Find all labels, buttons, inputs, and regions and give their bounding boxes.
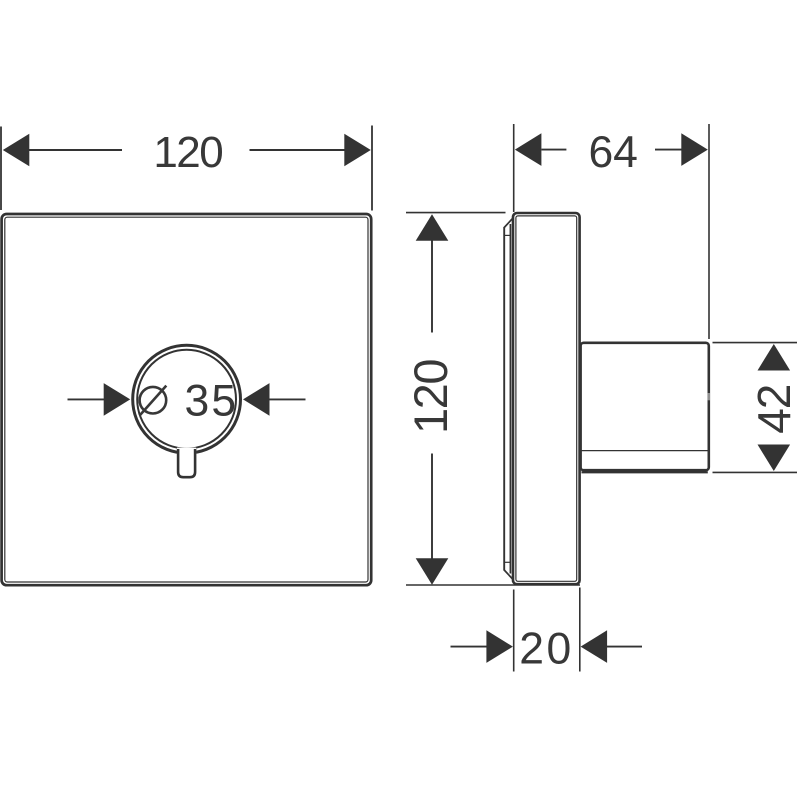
front view: escutcheon square plate outer outline [2, 214, 372, 585]
dim 64: left line segment [542, 149, 567, 151]
dim 64: right arrow [681, 133, 708, 166]
side view: plate body inner edge line [516, 216, 577, 581]
dim 42: bottom arrow [758, 445, 791, 472]
dim 42: top arrow [758, 344, 791, 371]
side view: wall flange inner vertical line [509, 224, 511, 574]
dim 20: left line segment [451, 646, 488, 648]
dim 120 top: right extension line [371, 126, 373, 211]
dim Ø35: right arrow [243, 383, 270, 416]
dim 64: right line segment [655, 149, 682, 151]
side view: flange bottom bevel [504, 570, 513, 580]
svg-text:42: 42 [748, 385, 800, 434]
dim 120 side: top extension line [406, 212, 506, 214]
dim 120 side: bottom extension line [406, 584, 580, 586]
side view: knob right edge light tick [707, 393, 710, 400]
dim Ø35: diameter symbol circle [140, 387, 167, 414]
dim 64: left extension line [513, 124, 515, 212]
dim Ø35: left leader line [68, 398, 106, 400]
dim 42: bottom extension line [713, 471, 798, 473]
svg-text:64: 64 [588, 128, 638, 177]
dim 20: left extension line [513, 590, 515, 672]
dim 20: right arrow [581, 630, 608, 663]
front view: escutcheon square plate inner edge line [5, 217, 368, 582]
front view: handle bottom tab notch fill [177, 448, 196, 478]
dim Ø35: right leader line [268, 398, 306, 400]
side view: plate body outer outline [513, 213, 580, 584]
side view: knob inner bottom line [582, 450, 708, 452]
dim 64: left arrow [515, 133, 542, 166]
side view: flange top tick [504, 234, 511, 236]
side view: flange bottom tick [504, 561, 511, 563]
dim 120 top: left line segment [28, 149, 122, 151]
dim 20: right line segment [607, 646, 642, 648]
dim 64: right extension line [708, 124, 710, 339]
dim Ø35: left arrow [104, 383, 131, 416]
dim 120 side: bottom arrow [416, 558, 449, 585]
dim 20: right extension line [579, 588, 581, 672]
front view: handle outer circle [133, 345, 241, 453]
side view: flange top bevel [504, 218, 513, 228]
svg-text:35: 35 [184, 376, 238, 425]
side view: knob bottom edge reinforcement [582, 471, 708, 473]
side view: wall flange outer vertical line [503, 227, 505, 571]
front view: handle bottom tab outline [178, 449, 195, 477]
front view: handle inner circle [137, 350, 236, 449]
dim 120 top: left arrow [3, 134, 30, 167]
dim 120 top: right arrow [344, 134, 371, 167]
dim 120 side: top arrow [416, 214, 449, 241]
dim 120 side: upper line segment [431, 240, 433, 333]
dim 120 top: right line segment [250, 149, 346, 151]
dim Ø35: diameter symbol slash [140, 386, 167, 416]
side view: handle knob outline [581, 343, 709, 470]
dim 42: top extension line [713, 342, 798, 344]
svg-text:120: 120 [153, 128, 222, 177]
svg-text:120: 120 [404, 360, 457, 434]
dim 120 top: left extension line [0, 127, 2, 211]
dim 120 side: lower line segment [431, 454, 433, 560]
svg-text:20: 20 [519, 624, 574, 673]
dim 20: left arrow [486, 630, 513, 663]
